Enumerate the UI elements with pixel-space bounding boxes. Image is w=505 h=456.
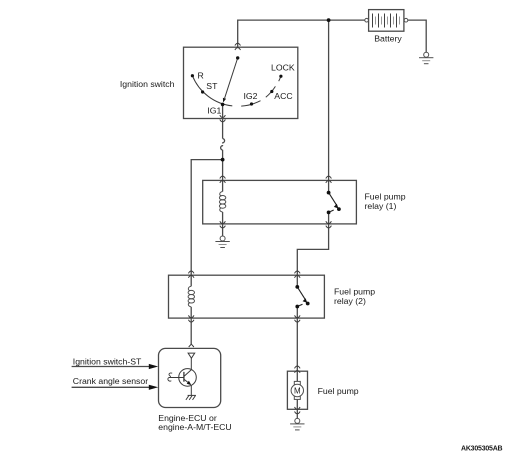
svg-text:Fuel pump: Fuel pump <box>318 386 359 396</box>
svg-text:AK305305AB: AK305305AB <box>461 445 503 452</box>
svg-text:Ignition switch: Ignition switch <box>120 79 175 89</box>
svg-text:Fuel pump: Fuel pump <box>365 191 406 201</box>
svg-text:ST: ST <box>206 81 218 91</box>
svg-text:relay (2): relay (2) <box>334 296 366 306</box>
svg-text:Battery: Battery <box>374 33 402 43</box>
svg-text:M: M <box>294 386 301 395</box>
svg-text:relay (1): relay (1) <box>365 201 397 211</box>
svg-text:IG1: IG1 <box>207 105 221 115</box>
svg-text:Ignition switch-ST: Ignition switch-ST <box>73 356 142 366</box>
svg-text:Crank angle sensor: Crank angle sensor <box>73 376 148 386</box>
svg-text:LOCK: LOCK <box>271 63 295 73</box>
svg-text:IG2: IG2 <box>244 91 258 101</box>
svg-text:R: R <box>198 70 204 80</box>
svg-text:Fuel pump: Fuel pump <box>334 286 375 296</box>
svg-text:engine-A-M/T-ECU: engine-A-M/T-ECU <box>158 422 231 432</box>
svg-text:ACC: ACC <box>274 91 292 101</box>
